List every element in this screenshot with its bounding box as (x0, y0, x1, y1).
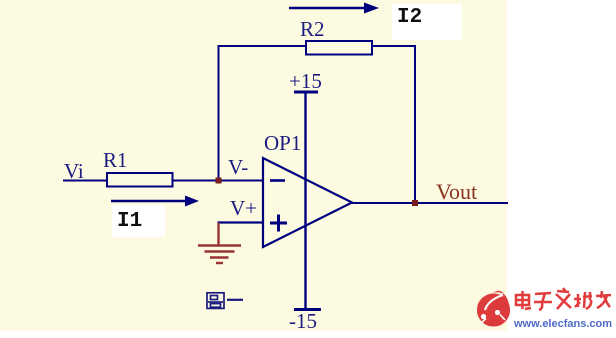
label Vout (436, 179, 477, 204)
label V+ (230, 196, 257, 220)
watermark url www.elecfans.com (513, 318, 612, 330)
svg-text:V-: V- (228, 155, 248, 179)
svg-text:R2: R2 (300, 17, 325, 41)
svg-text:+15: +15 (289, 69, 322, 93)
node: output junction (412, 200, 418, 206)
power +15 terminal (294, 91, 318, 94)
wire: feedback branch vertical from node to top (218, 46, 220, 182)
op-amp OP1 (263, 158, 352, 247)
resistor R1 (107, 173, 173, 187)
ground (198, 223, 241, 264)
svg-text:Vi: Vi (64, 159, 84, 183)
label R2 (300, 17, 325, 41)
label I2 (392, 4, 462, 40)
arrow I1 current direction (111, 196, 199, 207)
wire: R1 to inverting input node (173, 180, 264, 182)
label I1 (112, 205, 165, 237)
svg-text:V+: V+ (230, 196, 257, 220)
wire: feedback top horizontal to R2 (218, 45, 307, 47)
svg-text:I2: I2 (397, 6, 422, 29)
label OP1 (264, 131, 301, 155)
label Vi (64, 159, 84, 183)
wire: op-amp output (352, 202, 508, 204)
label +15 (289, 69, 322, 93)
op-amp non-inverting pin plus sign (270, 215, 287, 232)
resistor R2 (306, 41, 372, 55)
svg-text:R1: R1 (103, 148, 128, 172)
svg-text:Vout: Vout (436, 179, 477, 204)
wire: supply rail vertical (304, 92, 306, 309)
label -15 (289, 309, 317, 333)
svg-text:www.elecfans.com: www.elecfans.com (513, 318, 612, 330)
power -15 terminal (294, 308, 321, 311)
svg-text:I1: I1 (117, 210, 142, 233)
op-amp inverting pin minus sign (270, 179, 285, 182)
wire: feedback right vertical down to output node (414, 45, 416, 203)
label R1 (103, 148, 128, 172)
watermark logo circle (478, 291, 510, 327)
wire: Vi input to R1 (63, 180, 108, 182)
arrow I2 current direction (289, 3, 379, 14)
watermark text 电子发烧友 (516, 288, 611, 310)
wire: R2 to output branch horizontal (372, 45, 416, 47)
label V- (228, 155, 248, 179)
node: inverting input junction (216, 178, 222, 184)
svg-text:-15: -15 (289, 309, 317, 333)
label figure caption 圖一 (207, 293, 243, 309)
wire: non-inverting input to ground (218, 221, 264, 223)
svg-text:OP1: OP1 (264, 131, 301, 155)
